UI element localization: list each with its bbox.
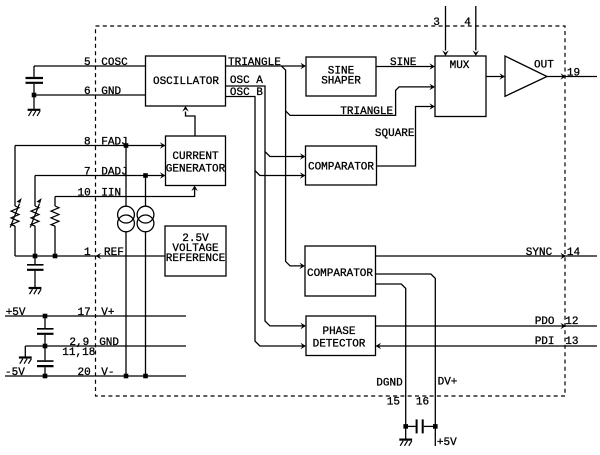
svg-text:V+: V+: [101, 307, 114, 319]
2.5V voltage reference block: [165, 226, 226, 276]
svg-text:SQUARE: SQUARE: [375, 128, 415, 140]
svg-text:REFERENCE: REFERENCE: [166, 253, 226, 265]
svg-text:REF: REF: [104, 247, 124, 259]
capacitor V+ bottom plate: [37, 333, 54, 335]
wire DV+ from comparator 2: [376, 274, 436, 446]
wire triangle branch down: [282, 66, 304, 266]
IC boundary dashed border: [96, 26, 566, 396]
svg-text:FADJ: FADJ: [101, 137, 127, 149]
wire OUT pin19: [547, 76, 597, 78]
arrow into mux square: [429, 103, 435, 110]
wire DADJ down to pot R2: [34, 176, 36, 207]
mux block: [435, 56, 486, 117]
wire FADJ down to pot R1: [14, 146, 16, 207]
wire DGND from comparator 2: [376, 284, 406, 439]
arrow into oscillator from current generator: [182, 106, 189, 112]
comparator 2 block: [305, 246, 376, 296]
wire FADJ node to current source I1: [125, 146, 127, 207]
wire REF cap lead: [34, 256, 36, 264]
junction dot REF-cap: [33, 254, 38, 259]
current source I1 lower circle: [118, 215, 135, 232]
wire COSC pin5: [34, 65, 146, 67]
svg-text:V-: V-: [101, 367, 114, 379]
svg-text:DGND: DGND: [376, 378, 403, 390]
junction dot DADJ: [143, 173, 148, 178]
wire COSC cap lead: [33, 66, 35, 77]
capacitor DGND-DV+ right plate: [422, 419, 424, 433]
wire IIN pin10: [55, 188, 195, 197]
arrow REF out of border: [96, 253, 102, 260]
svg-text:10: 10: [78, 188, 91, 200]
arrow into sine shaper: [300, 63, 306, 70]
wire pin3 A0: [445, 6, 447, 51]
wire SYNC pin14: [376, 255, 598, 257]
junction dot DV+ cap: [433, 424, 438, 429]
svg-text:OSC A: OSC A: [230, 75, 263, 87]
wire V- pin20: [5, 375, 186, 377]
wire cap to V- rail: [44, 367, 46, 376]
svg-text:CURRENT: CURRENT: [172, 151, 219, 163]
svg-text:12: 12: [565, 316, 578, 328]
svg-text:TRIANGLE: TRIANGLE: [340, 106, 393, 118]
wire REF pin1: [15, 255, 165, 257]
svg-text:TRIANGLE: TRIANGLE: [228, 57, 281, 69]
svg-text:8: 8: [84, 137, 91, 149]
arrow into comparator 2: [299, 263, 305, 270]
arrow into comparator 1 lower: [300, 172, 306, 179]
wire OSC A output: [226, 86, 304, 157]
wire GND to ground: [33, 95, 35, 109]
capacitor V- top plate: [37, 360, 54, 362]
svg-text:GND: GND: [99, 337, 119, 349]
wire REF cap to ground: [34, 271, 36, 287]
junction dot V- cap: [43, 374, 48, 379]
junction dot V- I1: [124, 374, 129, 379]
wire resistor R3 to REF: [54, 226, 56, 256]
wire mux to buffer: [486, 76, 503, 78]
sine shaper block: [306, 57, 376, 96]
svg-text:MUX: MUX: [450, 60, 470, 72]
wire current source I1 to V-: [125, 232, 127, 376]
wire bypass cap right lead: [424, 425, 436, 427]
arrow into comparator 1 upper: [300, 153, 306, 160]
capacitor V+ top plate: [37, 328, 54, 330]
wire GND pin6: [34, 94, 146, 96]
wire GND rail to ground: [24, 346, 26, 357]
wire cap to GND rail: [44, 335, 46, 346]
oscillator block: [146, 56, 226, 106]
wire pot R1 to REF: [14, 226, 16, 256]
comparator 1 block: [306, 146, 377, 185]
svg-text:11,18: 11,18: [62, 347, 95, 359]
wire cap to GND node: [33, 84, 35, 95]
wire OSC B to phase detector: [255, 171, 304, 346]
svg-text:DV+: DV+: [438, 377, 458, 389]
svg-text:GND: GND: [101, 86, 121, 98]
wire GND pins 2,9,11,18: [25, 345, 186, 347]
wire PDI pin13: [378, 345, 598, 347]
arrow pin4 into mux: [473, 50, 480, 56]
svg-text:PDO: PDO: [535, 316, 555, 328]
svg-text:13: 13: [565, 336, 578, 348]
junction dot V- I2: [143, 374, 148, 379]
arrow into phase detector upper: [300, 323, 306, 330]
arrow PDI into phase detector: [376, 343, 382, 350]
resistor R3 zigzag: [51, 206, 59, 226]
wire FADJ pin8: [15, 145, 164, 147]
svg-text:+5V: +5V: [437, 437, 457, 449]
current source I1 upper circle: [118, 206, 135, 223]
ground symbol at GND rail: [19, 358, 32, 364]
svg-text:COMPARATOR: COMPARATOR: [308, 162, 374, 174]
phase detector block: [306, 316, 376, 356]
arrow SYNC at border: [560, 253, 566, 260]
svg-text:OSC B: OSC B: [230, 87, 263, 99]
junction dot REF-R3: [53, 254, 58, 259]
capacitor COSC top plate: [26, 77, 44, 79]
potentiometer R1 zigzag: [11, 206, 19, 226]
wire V+ pin17: [5, 315, 186, 317]
wire OSC A to phase detector: [265, 152, 304, 326]
wire V+ cap lead: [44, 316, 46, 328]
wire GND rail cap lead: [44, 346, 46, 360]
svg-text:PDI: PDI: [535, 336, 555, 348]
capacitor REF bottom plate: [27, 269, 44, 271]
current source I2 upper circle: [137, 206, 154, 223]
current source I2 lower circle: [137, 215, 154, 232]
svg-text:17: 17: [78, 307, 91, 319]
wire PDO pin12: [376, 325, 598, 327]
svg-text:IIN: IIN: [101, 188, 121, 200]
wire triangle to mux: [286, 87, 433, 116]
svg-text:OUT: OUT: [534, 59, 554, 71]
svg-text:DADJ: DADJ: [101, 167, 127, 179]
svg-text:1: 1: [84, 247, 91, 259]
svg-text:14: 14: [567, 247, 581, 259]
svg-text:COSC: COSC: [101, 57, 128, 69]
svg-text:6: 6: [84, 86, 91, 98]
svg-text:OSCILLATOR: OSCILLATOR: [153, 76, 219, 88]
svg-text:SHAPER: SHAPER: [321, 75, 361, 87]
junction dot V+ cap: [43, 314, 48, 319]
capacitor DGND-DV+ left plate: [416, 419, 418, 433]
ground symbol at COSC cap: [28, 110, 41, 116]
arrow into mux sine: [429, 63, 435, 70]
ground symbol at DGND: [399, 440, 412, 446]
output buffer amplifier: [505, 56, 547, 96]
svg-text:PHASE: PHASE: [322, 326, 355, 338]
svg-text:16: 16: [416, 396, 429, 408]
arrow pin3 into mux: [442, 50, 449, 56]
wire bypass cap left lead: [406, 425, 416, 427]
potentiometer R2 arrow: [30, 204, 39, 228]
wire pot R2 to REF: [34, 226, 36, 256]
junction dot GND-cap: [32, 93, 37, 98]
junction dot DGND cap: [403, 424, 408, 429]
wire oscillator input from current generator: [186, 112, 196, 137]
arrow PDO at border: [560, 323, 566, 330]
arrow into buffer: [499, 73, 505, 80]
svg-text:15: 15: [387, 396, 400, 408]
arrow into current generator DADJ: [160, 172, 166, 179]
ground symbol at REF cap: [29, 288, 42, 294]
svg-text:+5V: +5V: [6, 307, 26, 319]
svg-text:19: 19: [567, 68, 580, 80]
wire square from comparator 1 to mux: [377, 107, 434, 167]
capacitor REF top plate: [27, 264, 44, 266]
svg-text:4: 4: [464, 17, 471, 29]
junction dot FADJ: [124, 143, 129, 148]
wire sine shaper to mux: [376, 66, 433, 68]
arrow into mux triangle: [429, 84, 435, 91]
svg-text:7: 7: [84, 167, 91, 179]
junction dot GND rail cap: [43, 344, 48, 349]
wire DADJ node to current source I2: [145, 176, 147, 207]
svg-text:5: 5: [84, 57, 91, 69]
capacitor COSC bottom plate: [26, 82, 44, 84]
potentiometer R2 zigzag: [31, 206, 39, 226]
svg-text:SINE: SINE: [390, 57, 417, 69]
arrow into phase detector lower: [300, 343, 306, 350]
svg-text:GENERATOR: GENERATOR: [166, 164, 226, 176]
arrow into current generator IIN: [191, 186, 198, 192]
svg-text:3: 3: [433, 17, 440, 29]
arrow OUT at border: [560, 73, 566, 80]
wire IIN down to resistor R3: [54, 197, 56, 207]
wire DADJ pin7: [35, 175, 164, 177]
svg-text:SYNC: SYNC: [526, 247, 553, 259]
wire OSC B output: [226, 97, 304, 176]
svg-text:DETECTOR: DETECTOR: [313, 339, 366, 351]
svg-text:COMPARATOR: COMPARATOR: [307, 268, 373, 280]
wire pin4 A1: [475, 6, 477, 51]
wire oscillator triangle output to sine shaper: [226, 65, 305, 67]
potentiometer R1 arrow: [10, 204, 19, 228]
current generator block: [166, 136, 226, 186]
wire current source I2 to V-: [145, 232, 147, 376]
arrow into current generator FADJ: [160, 142, 166, 149]
capacitor V- bottom plate: [37, 365, 54, 367]
svg-text:-5V: -5V: [5, 367, 25, 379]
svg-text:20: 20: [78, 367, 91, 379]
